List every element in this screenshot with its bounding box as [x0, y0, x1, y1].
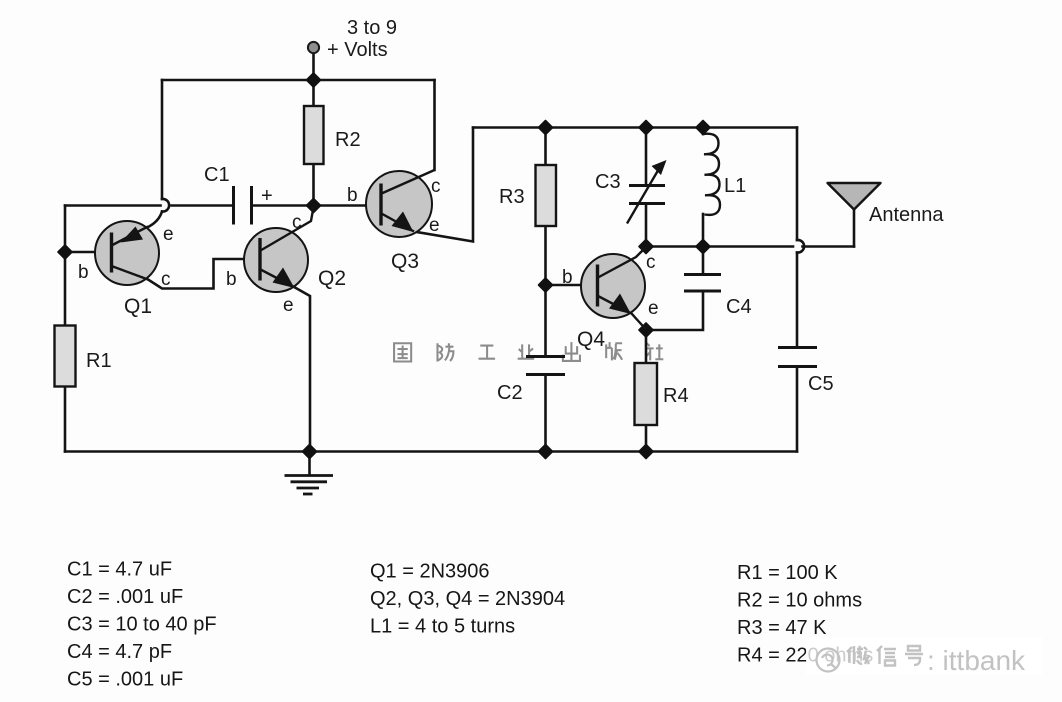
svg-text:c: c	[431, 176, 441, 197]
antenna stem	[853, 208, 856, 247]
wire: Q3 collector riser	[433, 80, 436, 170]
wire: left V+ drop to Q1 emitter	[161, 80, 164, 199]
svg-text:L1: L1	[724, 175, 746, 197]
wire: R4 top lead	[645, 330, 648, 363]
wire: to Q1 emitter	[149, 212, 162, 227]
wire: tank top rail	[473, 126, 797, 129]
svg-text:C2 = .001 uF: C2 = .001 uF	[67, 586, 183, 608]
svg-text:e: e	[648, 298, 659, 319]
svg-text:Q1 = 2N3906: Q1 = 2N3906	[370, 561, 490, 583]
svg-text:Antenna: Antenna	[869, 204, 944, 226]
svg-text:R2 = 10 ohms: R2 = 10 ohms	[737, 590, 862, 612]
svg-text:+ Volts: + Volts	[327, 39, 388, 61]
node: C2 ground junction	[539, 445, 553, 459]
wire: R3 bottom lead	[544, 226, 547, 285]
resistor R3	[536, 165, 557, 226]
node: Q1 base junction	[58, 245, 72, 259]
inductor L1	[703, 134, 720, 215]
watermark 国防工业出版社	[394, 342, 663, 361]
svg-text:R3 = 47 K: R3 = 47 K	[737, 617, 827, 639]
capacitor C3 plates (variable)	[629, 186, 665, 204]
wire: R2 bottom	[312, 164, 315, 206]
wire: Q2 emitter drop to ground	[295, 288, 310, 452]
svg-text:: ittbank: : ittbank	[927, 645, 1026, 676]
antenna	[828, 183, 881, 210]
wire: C2 top lead	[544, 285, 547, 356]
wire: R2 top	[312, 80, 315, 106]
svg-text:e: e	[163, 224, 174, 245]
svg-text:R1: R1	[86, 350, 112, 372]
transistor Q2 (NPN 2N3904)	[244, 207, 314, 292]
node: C3 top junction	[639, 121, 653, 135]
wire: ground rail	[65, 450, 797, 453]
wire hop over antenna wire	[797, 240, 804, 253]
svg-text:C1: C1	[204, 164, 230, 186]
transistor Q3 (NPN 2N3904)	[366, 170, 435, 237]
node: R3 top junction	[539, 121, 553, 135]
node: Q4 base junction	[539, 278, 553, 292]
svg-text:C4 = 4.7 pF: C4 = 4.7 pF	[67, 641, 172, 663]
ground symbol	[285, 476, 334, 495]
wire: C5 top lead	[796, 253, 799, 348]
node: R4 ground junction	[639, 445, 653, 459]
wire: C3 bottom lead	[645, 204, 648, 247]
resistor R4	[635, 363, 658, 425]
wire: C2 bottom lead	[544, 375, 547, 452]
svg-text:R4: R4	[663, 385, 689, 407]
wire: tank output wire to antenna	[646, 245, 793, 248]
svg-text:C3: C3	[595, 171, 621, 193]
ground stub	[308, 452, 311, 475]
resistor R1	[55, 326, 76, 387]
svg-text:C5 = .001 uF: C5 = .001 uF	[67, 669, 183, 691]
node: Q4 emitter junction	[639, 323, 653, 337]
wire: C1 right wire	[252, 204, 314, 207]
svg-text:Q2, Q3, Q4 = 2N3904: Q2, Q3, Q4 = 2N3904	[370, 588, 565, 610]
wire: C5 bottom lead	[796, 367, 799, 452]
wire: Q1 base wire	[65, 251, 112, 254]
wire: L1 bottom lead	[702, 214, 705, 247]
svg-text:3 to 9: 3 to 9	[347, 17, 397, 39]
resistor R2	[304, 106, 324, 164]
transistor Q4 (NPN 2N3904)	[581, 247, 646, 330]
svg-text:L1 = 4 to 5 turns: L1 = 4 to 5 turns	[370, 616, 515, 638]
svg-text:C5: C5	[808, 373, 834, 395]
wire: Q4 base wire	[546, 284, 599, 287]
capacitor C3 arrow	[627, 167, 660, 224]
svg-text:R3: R3	[499, 186, 525, 208]
svg-text:e: e	[283, 295, 294, 316]
node: C1/R2/Q2c/Q3b junction	[307, 199, 321, 213]
power terminal	[308, 42, 319, 53]
svg-text:+: +	[261, 185, 273, 207]
wire: C1 left wire	[65, 204, 161, 207]
wire: Q3 base wire	[314, 204, 384, 207]
svg-text:Q4: Q4	[577, 328, 605, 351]
watermark wechat icon	[817, 649, 840, 672]
capacitor C1 plates	[234, 186, 252, 225]
capacitor C4 plates	[684, 275, 721, 292]
wire: R3 top lead	[544, 128, 547, 166]
watermark wechat strip backdrop	[806, 637, 1042, 675]
svg-text:c: c	[292, 212, 302, 233]
wire: C5 branch upper	[796, 128, 799, 241]
wire hop over C1 wire	[162, 199, 169, 212]
svg-text:c: c	[161, 269, 171, 290]
svg-text:C1 = 4.7 uF: C1 = 4.7 uF	[67, 559, 172, 581]
wire: C4 bottom lead	[646, 291, 703, 330]
svg-text:Q3: Q3	[391, 250, 419, 273]
wire: V+ stem	[312, 53, 315, 80]
wire: R1 bottom lead	[64, 387, 67, 452]
svg-text:R1 = 100 K: R1 = 100 K	[737, 562, 838, 584]
svg-text:Q2: Q2	[318, 267, 346, 290]
node: ground junction	[303, 445, 317, 459]
wire: R1 top branch	[64, 206, 67, 326]
svg-text:C2: C2	[497, 382, 523, 404]
svg-text:b: b	[347, 185, 358, 206]
wire: Q1 collector to Q2 base	[148, 259, 260, 289]
svg-text:Q1: Q1	[124, 295, 152, 318]
capacitor C5 plates	[778, 348, 817, 367]
watermark 微信号: ittbank	[847, 646, 923, 666]
svg-text:R2: R2	[335, 129, 361, 151]
svg-text:b: b	[226, 269, 237, 290]
node: L1 bottom junction	[696, 240, 710, 254]
svg-text:C3 = 10 to 40 pF: C3 = 10 to 40 pF	[67, 614, 217, 636]
wire: R4 bottom lead	[645, 425, 648, 452]
wire: C4 top lead	[702, 247, 705, 275]
wire: L1 top lead	[702, 128, 705, 135]
node: L1 top junction	[696, 121, 710, 135]
wire: Q3 emitter run to tank	[414, 128, 473, 242]
wire: C3 top lead	[645, 128, 648, 186]
svg-text:C4: C4	[726, 296, 752, 318]
svg-text:c: c	[646, 252, 656, 273]
svg-text:e: e	[429, 215, 440, 236]
svg-text:b: b	[78, 262, 89, 283]
capacitor C2 plates	[526, 357, 565, 375]
node: Q4 collector junction	[639, 240, 653, 254]
wire: top supply rail	[162, 79, 435, 82]
transistor Q1 (PNP 2N3906)	[95, 221, 159, 285]
svg-text:b: b	[562, 267, 573, 288]
node: V+ junction	[307, 73, 321, 87]
